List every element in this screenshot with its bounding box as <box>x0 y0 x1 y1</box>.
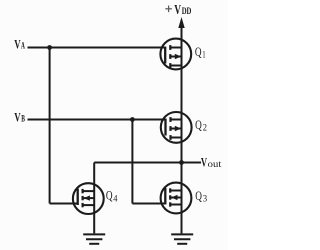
wire Vout corner down to Q4 drain <box>93 163 95 234</box>
power rail +VDD label <box>165 3 191 18</box>
svg-text:V: V <box>14 38 20 52</box>
wire VA horizontal to Q1 gate <box>28 47 166 49</box>
svg-text:B: B <box>21 114 25 124</box>
svg-text:2: 2 <box>203 123 207 133</box>
svg-text:Q: Q <box>195 118 202 132</box>
svg-text:1: 1 <box>202 50 205 60</box>
node VB label <box>14 111 25 125</box>
svg-text:out: out <box>208 159 222 169</box>
wire VDD rail vertical (through Q1,Q2 to Vout and Q3 to ground) <box>181 25 183 233</box>
junction VB branch <box>130 117 135 122</box>
wire VB horizontal to Q2 gate <box>28 119 166 121</box>
svg-text:Q: Q <box>195 45 202 59</box>
transistor Q1 (PMOS) <box>160 39 191 70</box>
transistor Q3 (NMOS) <box>161 183 192 214</box>
junction VA branch <box>47 45 52 50</box>
transistor Q2 (PMOS) <box>161 112 192 143</box>
wire VA branch to Q4 gate <box>50 203 78 205</box>
svg-text:DD: DD <box>182 6 192 17</box>
svg-text:3: 3 <box>203 194 208 204</box>
node VA label <box>14 38 25 52</box>
svg-text:V: V <box>174 3 181 18</box>
svg-text:V: V <box>201 155 207 169</box>
power supply arrow VDD <box>178 17 184 28</box>
wire VB vertical branch down <box>131 120 133 204</box>
label Q1 <box>195 45 206 60</box>
svg-text:Q: Q <box>195 189 202 203</box>
junction Vout <box>179 160 184 165</box>
label Q3 <box>195 189 207 204</box>
wire VB branch to Q3 gate <box>132 203 165 205</box>
svg-text:Q: Q <box>106 189 113 203</box>
transistor Q4 (NMOS) <box>73 183 104 214</box>
node Vout wire horizontal <box>94 162 201 164</box>
ground (below Q3) <box>171 234 193 243</box>
label Q4 <box>106 189 118 204</box>
ground (below Q4) <box>83 234 105 243</box>
svg-text:V: V <box>14 111 20 125</box>
label Q2 <box>195 118 207 133</box>
node Vout label <box>201 155 222 169</box>
svg-text:A: A <box>21 41 25 51</box>
svg-text:4: 4 <box>113 193 118 203</box>
wire VA vertical branch down <box>49 48 51 204</box>
